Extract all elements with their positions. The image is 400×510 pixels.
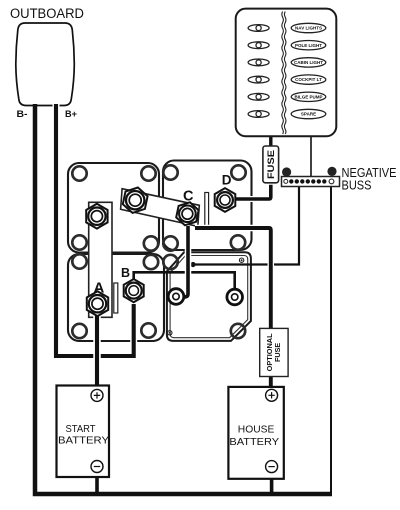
ACR inner seam [170,256,248,338]
wire D to fuse [236,185,271,199]
mounting holes row1 [72,165,245,180]
svg-text:BATTERY: BATTERY [58,436,109,447]
svg-text:POLE LIGHT: POLE LIGHT [295,43,322,48]
wire panel to fuse [269,137,272,147]
svg-text:BATTERY: BATTERY [229,437,279,448]
terminal nut on diagonal strip [123,188,148,213]
panel wavy divider [282,12,284,135]
wire outboard B- to ground bottom [35,104,332,494]
panel rocker switches left column [248,25,269,118]
svg-text:D: D [222,173,232,188]
battery switch TL square [68,163,159,253]
wire C to ACR left terminal [182,226,188,297]
ACR relay body [167,252,251,341]
switch panel body [236,9,337,137]
diagonal busbar strip [121,189,200,227]
optional fuse box [260,328,288,376]
house battery - terminal [266,461,278,473]
mounting holes row2 [72,235,245,250]
battery switch TR square [163,161,252,251]
svg-text:A: A [94,280,105,297]
wire buss to ACR ground [195,187,300,265]
ACR screw top-right [239,258,243,262]
terminal nut D [215,188,236,212]
svg-text:HOUSE: HOUSE [238,425,275,436]
label OPTIONAL FUSE [265,333,282,372]
wire B to ACR right terminal [134,272,235,290]
svg-text:B+: B+ [65,109,77,119]
ACR right terminal [227,289,243,305]
negative buss bar [282,177,340,187]
ACR ground dot [190,262,195,267]
svg-text:OUTBOARD: OUTBOARD [10,6,84,21]
buss post left [282,167,291,176]
buss post right [327,167,336,176]
wire start battery negative [95,473,99,493]
fuse box [263,146,279,183]
terminal nut top of strip [86,204,107,229]
svg-text:B: B [121,266,130,280]
terminal nut B [124,279,144,302]
terminal nut A [87,291,108,316]
mounting holes row3 [72,254,177,269]
svg-text:COCKPIT LT: COCKPIT LT [295,77,322,82]
battery switch BL square [68,254,164,341]
wire C to optional fuse [195,228,271,329]
house battery + terminal [266,389,278,401]
small bar left [114,283,118,313]
ACR left terminal [168,289,184,305]
ACR screw bottom-left [168,331,172,335]
svg-text:BUSS: BUSS [342,179,372,193]
svg-text:FUSE: FUSE [266,150,277,179]
svg-text:B-: B- [17,109,28,119]
buss terminals [284,179,334,184]
svg-text:START: START [66,424,97,435]
wire buss to bottom ground [330,187,332,495]
svg-text:NAV LIGHTS: NAV LIGHTS [295,26,322,31]
wire house battery negative [270,473,274,493]
start battery - terminal [91,461,103,473]
wire A to start battery + [93,310,101,389]
wire outboard B+ to terminal B [56,104,134,356]
svg-text:C: C [183,188,194,204]
small bar right [205,193,209,226]
outboard motor body [16,23,75,106]
mounting holes row4 [72,323,245,338]
vertical busbar strip [89,202,112,317]
wire optional fuse to house battery + [269,377,273,391]
start battery + terminal [91,389,103,401]
house battery box [228,387,283,479]
svg-text:SPARE: SPARE [301,112,316,117]
start battery box [57,386,110,478]
svg-text:BILGE PUMP: BILGE PUMP [294,94,322,99]
terminal nut C [176,202,198,225]
svg-text:CABIN LIGHT: CABIN LIGHT [294,60,323,65]
wire panel to buss [310,137,312,177]
svg-text:FUSE: FUSE [273,343,282,362]
panel switch labels right column [291,23,326,118]
